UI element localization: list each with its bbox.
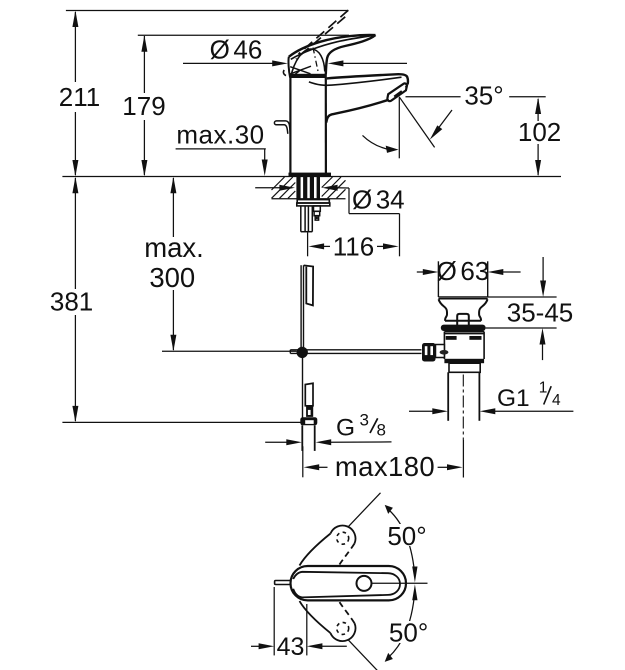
lever handle: [288, 35, 375, 78]
counter hatch right: [322, 177, 346, 198]
drain plug lift knob: [457, 314, 469, 325]
pivot circle: [357, 576, 372, 591]
svg-text:8: 8: [377, 421, 386, 440]
pull rod paddle: [304, 265, 313, 305]
dashed raised handle outline: [296, 10, 348, 59]
lower 50 deg arc with arrows: [389, 590, 415, 657]
svg-text:50°: 50°: [387, 521, 426, 551]
dimension max.300: [170, 177, 176, 352]
swivel arc with arrow: [363, 135, 391, 149]
svg-text:179: 179: [122, 91, 165, 121]
svg-text:max.: max.: [144, 232, 204, 263]
spout: [309, 74, 408, 122]
tube clamp: [306, 406, 313, 417]
dimension 116: [307, 233, 309, 257]
extension line max300 bottom: [162, 350, 297, 352]
svg-text:43: 43: [277, 633, 305, 661]
extension line top (211 level): [66, 10, 348, 12]
horizontal actuating rod: [290, 350, 421, 354]
svg-text:4: 4: [552, 392, 561, 409]
dashed cartridge axis: [313, 48, 319, 74]
svg-text:max180: max180: [335, 451, 435, 482]
tailpipe centerline: [462, 375, 464, 441]
handle band: [290, 74, 327, 78]
upper 50 deg arc with arrows: [389, 510, 415, 577]
50 degree upper inclined line: [348, 493, 381, 528]
counter bottom line: [272, 198, 346, 200]
centerline right: [372, 582, 428, 584]
dimension 211: [72, 11, 78, 177]
drain: Ø63 extension lines: [437, 261, 439, 297]
vertical reference line at aerator: [398, 98, 400, 159]
drain bell: [439, 299, 488, 321]
svg-text:50°: 50°: [389, 618, 428, 648]
tailpiece tube: [301, 206, 313, 232]
rod below ball: [302, 358, 304, 420]
cartridge dome arc: [291, 49, 325, 77]
svg-text:Ø63: Ø63: [437, 256, 490, 286]
waste body: [444, 332, 484, 359]
collar nut G3/8: [300, 417, 317, 425]
pop-up rod guide steps: [314, 206, 321, 220]
svg-text:381: 381: [50, 287, 93, 317]
aerator: [387, 83, 406, 101]
dimension 35-45 reference lines: [488, 296, 557, 298]
counter hatch left: [272, 177, 296, 198]
svg-text:102: 102: [518, 117, 561, 147]
upper swung lever: [300, 534, 331, 566]
mounting flange under counter: [297, 200, 330, 206]
leader arrow to spray line: [434, 110, 452, 134]
lever tip tab: [275, 581, 292, 585]
dimension max180: [302, 446, 304, 477]
dimension 35-45: [540, 257, 547, 360]
50 degree lower inclined line: [348, 639, 381, 670]
label G1 1/4 with arrows: [409, 408, 573, 414]
dimension 179: [141, 35, 147, 176]
X detail under handle: [290, 66, 311, 76]
supply pipe: [302, 425, 314, 451]
waste body bottom ring: [444, 359, 484, 363]
svg-text:116: 116: [333, 232, 374, 262]
body outline (top view pill): [291, 566, 407, 600]
counter top line: [62, 176, 561, 178]
extension line 381 bottom: [62, 421, 300, 423]
handle left cap curl: [283, 70, 286, 76]
drain tailpipe: [448, 372, 479, 421]
lever top view: [293, 572, 400, 598]
svg-text:3: 3: [360, 410, 369, 429]
svg-text:300: 300: [149, 262, 195, 293]
extension line 179 level: [138, 34, 349, 36]
svg-text:Ø34: Ø34: [352, 185, 405, 215]
lever clevis connector: [436, 345, 445, 358]
pop-up rod stub on body: [274, 121, 290, 135]
label Ø34 with leader: [255, 185, 399, 214]
knurled coupling nut: [422, 343, 436, 362]
svg-text:Ø46: Ø46: [210, 35, 263, 65]
dimension 381: [72, 177, 78, 423]
faucet body: [290, 78, 326, 174]
lower swung lever: [300, 601, 331, 633]
overflow slots: [446, 336, 457, 340]
supply connector tube: [305, 383, 313, 406]
svg-text:35°: 35°: [464, 81, 503, 111]
svg-text:G1: G1: [497, 385, 530, 412]
faucet base plate: [289, 173, 332, 177]
svg-text:211: 211: [59, 82, 100, 112]
linkage ball joint: [297, 347, 308, 358]
svg-text:1: 1: [539, 380, 548, 397]
dimension 43: [273, 587, 275, 655]
spray direction line: [399, 97, 434, 148]
svg-text:G: G: [336, 415, 355, 442]
threaded shank: [296, 177, 320, 199]
dimension 102: [535, 98, 541, 177]
label G3/8 with arrows: [265, 439, 391, 445]
drain flange top: [438, 297, 487, 299]
pop-up pull rod: [301, 265, 303, 347]
svg-text:max.30: max.30: [176, 120, 264, 150]
svg-text:35-45: 35-45: [507, 298, 574, 328]
rubber gasket: [441, 325, 486, 331]
